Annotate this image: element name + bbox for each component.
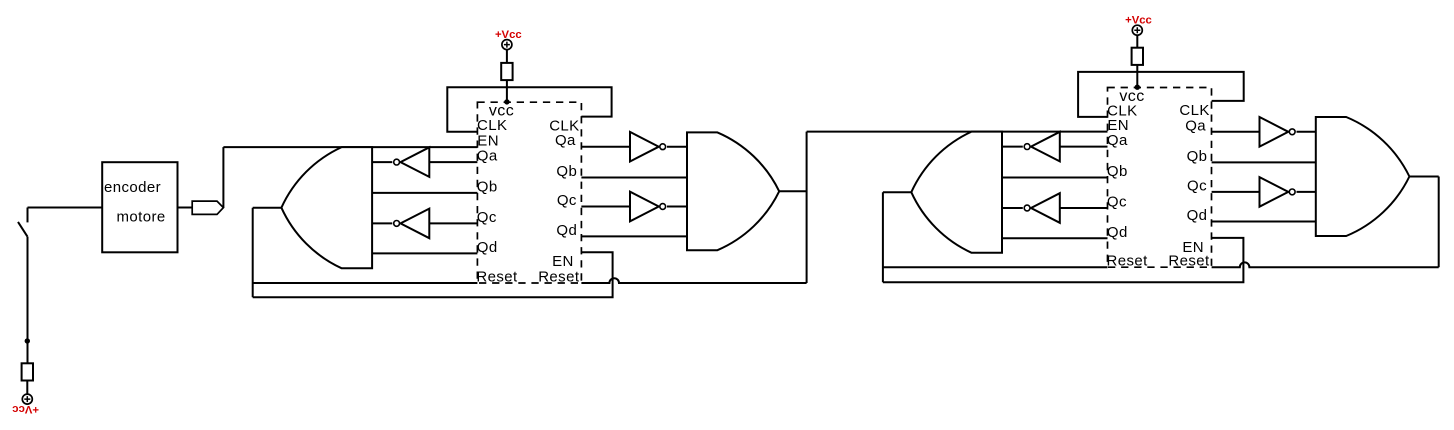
svg-text:+Vcc: +Vcc bbox=[495, 29, 522, 41]
wire U1 Qc right to U6 bbox=[581, 206, 630, 208]
svg-text:Qb: Qb bbox=[556, 163, 577, 180]
wire U1 Qa right to U5 bbox=[581, 146, 630, 148]
svg-text:+Vcc: +Vcc bbox=[1125, 15, 1152, 27]
wire encoder to tag bbox=[178, 207, 193, 209]
svg-text:Reset: Reset bbox=[476, 269, 518, 286]
svg-text:Qc: Qc bbox=[1107, 194, 1127, 211]
svg-text:Qd: Qd bbox=[477, 239, 498, 256]
resistor R2 bbox=[501, 63, 512, 80]
svg-text:motore: motore bbox=[117, 209, 166, 226]
inverter U12 (facing right) bbox=[1260, 117, 1289, 147]
svg-text:Reset: Reset bbox=[1168, 253, 1210, 270]
svg-text:+Vcc: +Vcc bbox=[12, 403, 39, 415]
and-gate U2 (4-input, facing left) bbox=[281, 147, 372, 268]
wire switch down to resistor bbox=[27, 237, 29, 364]
svg-text:Qc: Qc bbox=[477, 209, 497, 226]
inverter U4 (Qc row, facing left) bbox=[401, 209, 430, 239]
wire U14 output stub bbox=[1409, 176, 1438, 178]
wire U8 Qa to U10 bbox=[1060, 146, 1108, 148]
tag/out connector bbox=[192, 201, 223, 214]
wire U7 output vertical bbox=[806, 132, 808, 283]
node vcc junction U1 bbox=[504, 99, 509, 104]
wire U2 output stub bbox=[253, 207, 282, 209]
wire U1 Qc to U4 input bbox=[429, 222, 477, 224]
svg-text:Qb: Qb bbox=[477, 178, 498, 195]
wire U13 to U14 bbox=[1297, 191, 1316, 193]
inverter U10 (Qa row, facing left) bbox=[1031, 132, 1060, 162]
wire U1 Qd right to U7 bbox=[581, 235, 687, 237]
wire vcc drop into U1 bbox=[506, 80, 508, 102]
svg-text:Qd: Qd bbox=[1187, 207, 1208, 224]
wire U10 to U9 bbox=[1002, 146, 1023, 148]
switch S1 bbox=[27, 208, 29, 223]
svg-text:Qb: Qb bbox=[1187, 148, 1208, 165]
wire U9 output to U8 left Reset bbox=[883, 266, 1108, 268]
wire U8 Qb to U9 bbox=[1002, 177, 1108, 179]
wire U1 Qa to U3 input bbox=[429, 161, 477, 163]
svg-text:encoder: encoder bbox=[104, 179, 161, 196]
and-gate U7 (4-input, facing right) bbox=[687, 132, 779, 250]
svg-text:Qc: Qc bbox=[557, 192, 577, 209]
wire U2 output to U1 left Reset bbox=[253, 282, 478, 284]
wire U8 Qa right to U12 bbox=[1212, 131, 1260, 133]
wire U8 Qb right to U14 bbox=[1212, 161, 1316, 163]
inverter U13 (facing right) bbox=[1260, 177, 1289, 207]
inverter U11 (Qc row, facing left) bbox=[1031, 193, 1060, 223]
wire U1 Qb to U2 bbox=[372, 192, 477, 194]
wire R2 to +Vcc bbox=[506, 50, 508, 63]
svg-text:Qa: Qa bbox=[1185, 117, 1206, 134]
wire U1 Qb right to U7 bbox=[581, 177, 687, 179]
wire U12 to U14 bbox=[1297, 131, 1316, 133]
wire EN bus to counter U1 EN pin bbox=[223, 146, 477, 148]
wire U5 to U7 bbox=[667, 146, 687, 148]
wire U14 output down bbox=[1438, 177, 1440, 268]
counter U1 dashed box bbox=[477, 102, 581, 283]
wire U8 Qd to U9 bbox=[1002, 237, 1108, 239]
and-gate U14 (4-input, facing right) bbox=[1316, 117, 1410, 236]
wire bottom return to U1 right EN bbox=[253, 252, 613, 297]
svg-text:Qa: Qa bbox=[477, 148, 498, 165]
wire U8 Qc right to U13 bbox=[1212, 191, 1260, 193]
node vcc junction U8 bbox=[1135, 85, 1140, 90]
resistor R3 bbox=[1132, 48, 1143, 65]
counter U8 dashed box bbox=[1108, 88, 1212, 268]
inverter U5 (facing right) bbox=[630, 132, 659, 162]
wire U7 output to counter U8 EN bbox=[807, 131, 1108, 133]
node junction dot bottom-left bbox=[25, 338, 30, 343]
wire U9 output down bbox=[882, 192, 884, 282]
wire resistor to +Vcc symbol bbox=[26, 381, 28, 395]
wire U3 output to U2 bbox=[372, 161, 392, 163]
svg-text:Qa: Qa bbox=[555, 132, 576, 149]
svg-text:Qd: Qd bbox=[1107, 224, 1128, 241]
svg-text:Qb: Qb bbox=[1107, 163, 1128, 180]
power +Vcc symbol (block 2) bbox=[1132, 25, 1142, 35]
wire tag up to EN bus bbox=[222, 147, 224, 208]
wire R3 to +Vcc bbox=[1136, 35, 1138, 48]
svg-text:Reset: Reset bbox=[538, 269, 580, 286]
svg-text:Qc: Qc bbox=[1187, 177, 1207, 194]
wire U2 output down bbox=[252, 208, 254, 298]
wire U8 Qd right to U14 bbox=[1212, 221, 1316, 223]
wire U1 CLK top loop bbox=[447, 87, 611, 131]
wire U8 Qc to U11 bbox=[1060, 207, 1108, 209]
wire U8 CLK top loop bbox=[1078, 72, 1244, 117]
resistor R1 bbox=[22, 363, 33, 380]
and-gate U9 (4-input, facing left) bbox=[911, 132, 1002, 253]
wire U11 to U9 bbox=[1002, 207, 1023, 209]
wire U9 output stub bbox=[883, 191, 911, 193]
power +Vcc symbol (bottom, rotated) bbox=[22, 394, 32, 404]
wire switch to encoder bbox=[28, 207, 103, 209]
wire bottom return to U8 right EN bbox=[883, 238, 1244, 282]
wire U4 output to U2 bbox=[372, 222, 392, 224]
svg-text:Reset: Reset bbox=[1107, 253, 1149, 270]
wire U1 right Reset to U7 vertical (hop over EN leg) bbox=[581, 278, 806, 283]
wire vcc drop into U8 bbox=[1136, 65, 1138, 88]
wire U7 output stub bbox=[779, 190, 806, 192]
wire U1 Qd to U2 bbox=[372, 252, 477, 254]
wire U14 to U8 right Reset (hop over EN leg) bbox=[1212, 262, 1439, 267]
inverter U6 (facing right) bbox=[630, 192, 659, 222]
wire U6 to U7 bbox=[667, 206, 687, 208]
svg-text:Qd: Qd bbox=[556, 222, 577, 239]
inverter U3 (Qa row, facing left) bbox=[401, 147, 430, 177]
encoder motore box bbox=[102, 162, 177, 252]
svg-text:Qa: Qa bbox=[1107, 132, 1128, 149]
power +Vcc symbol (block 1) bbox=[502, 40, 512, 50]
